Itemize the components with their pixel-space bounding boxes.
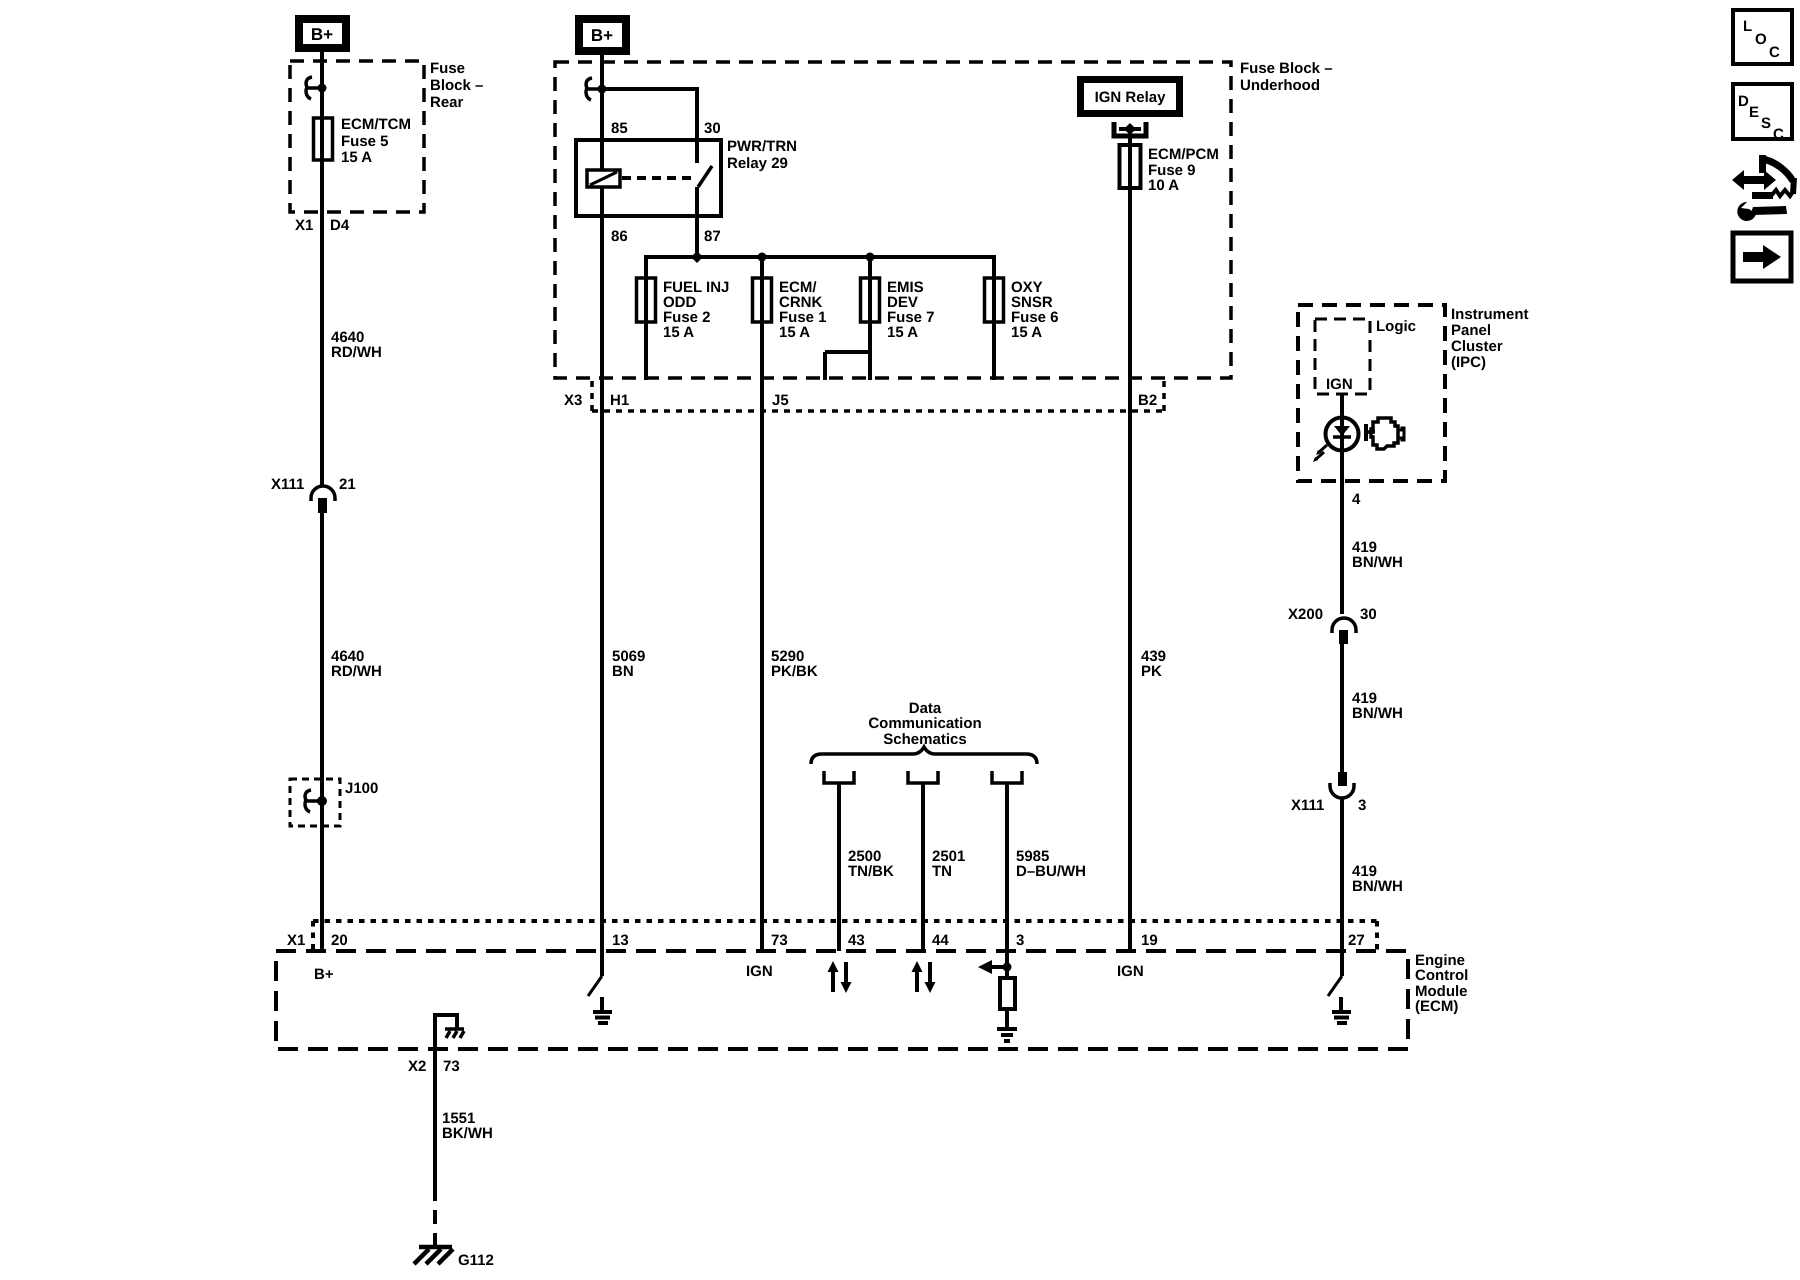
pin label 44	[932, 932, 949, 949]
connector X200 pin 30	[1288, 606, 1377, 644]
svg-text:J100: J100	[345, 780, 378, 797]
branch wire to fuse 2	[644, 255, 648, 278]
instrument panel cluster dashed box	[1298, 305, 1445, 481]
svg-text:X111: X111	[271, 476, 304, 493]
fuse F1 ECM/CRNK	[753, 257, 772, 322]
relay coil-contact dashed link	[622, 176, 692, 180]
svg-text:Block –: Block –	[430, 77, 483, 94]
svg-text:Logic: Logic	[1376, 318, 1416, 335]
connector label X2 73	[408, 1058, 460, 1075]
svg-text:C: C	[1769, 44, 1780, 61]
svg-text:G112: G112	[458, 1252, 494, 1269]
IGN relay output bracket	[1114, 122, 1146, 136]
svg-text:BN/WH: BN/WH	[1352, 705, 1403, 722]
ECM bidirectional arrows at pin 44	[912, 961, 936, 993]
wire relay pin 87 down to fuse bus	[695, 187, 699, 257]
ground G112	[414, 1247, 453, 1264]
engine control module dashed box	[276, 951, 1408, 1049]
fuse F2 FUEL INJ ODD	[637, 278, 656, 322]
off-page bracket pin 3	[992, 771, 1022, 783]
wire IGN relay to fuse 9	[1128, 129, 1132, 145]
ECM internal switch to ground at pin 27	[1328, 951, 1351, 1023]
svg-text:X1: X1	[287, 932, 305, 949]
engine icon	[1366, 418, 1404, 449]
wire label 5069 BN	[612, 648, 645, 680]
fuse F9 ECM/PCM	[1120, 145, 1141, 188]
fuse F7 EMIS DEV	[861, 257, 880, 322]
svg-text:85: 85	[611, 120, 628, 137]
svg-text:B2: B2	[1138, 392, 1157, 409]
svg-text:PK: PK	[1141, 663, 1162, 680]
label IGN at pin 19	[1117, 963, 1144, 980]
svg-text:L: L	[1743, 18, 1752, 35]
wire label 5985 D-BU/WH	[1016, 848, 1086, 880]
pin label 43	[848, 932, 865, 949]
svg-text:15 A: 15 A	[779, 324, 810, 341]
svg-text:Fuse 5: Fuse 5	[341, 133, 389, 150]
fuse bus horizontal wire	[646, 255, 994, 259]
relay switch contact	[698, 166, 712, 187]
relay pin 85 wire through coil	[600, 140, 604, 170]
wire 4640 RD/WH lower segment	[320, 513, 324, 951]
pin label 87	[704, 228, 721, 245]
indicator lamp MIL	[1313, 418, 1359, 463]
label Engine Control Module (ECM)	[1415, 952, 1468, 1015]
fuse F6 OXY SNSR	[985, 255, 1004, 322]
wire from junction to relay pin 30	[602, 87, 697, 163]
svg-text:BN: BN	[612, 663, 634, 680]
svg-text:ECM/PCM: ECM/PCM	[1148, 146, 1219, 163]
label Instrument Panel Cluster (IPC)	[1451, 306, 1529, 371]
svg-text:27: 27	[1348, 932, 1365, 949]
pin label 27	[1348, 932, 1365, 949]
pin label 85	[611, 120, 628, 137]
svg-text:D: D	[1738, 93, 1749, 110]
svg-text:Underhood: Underhood	[1240, 77, 1320, 94]
label J5	[772, 392, 789, 409]
wire fuse 6 down to X3 edge	[992, 322, 996, 380]
svg-text:IGN: IGN	[1117, 963, 1144, 980]
clip symbol in fuse block rear	[305, 77, 327, 99]
wire label 4640 RD/WH (lower)	[331, 648, 382, 680]
wire 2500 TN/BK	[837, 783, 841, 951]
svg-text:D–BU/WH: D–BU/WH	[1016, 863, 1086, 880]
wire label 419 BN/WH (2)	[1352, 690, 1403, 722]
svg-text:J5: J5	[772, 392, 789, 409]
svg-text:73: 73	[443, 1058, 460, 1075]
junction at pin 87 bus	[691, 251, 703, 263]
wire X111 to ECM pin 27	[1340, 798, 1344, 951]
label G112	[458, 1252, 494, 1269]
ECM internal switch to ground at pin 13	[588, 951, 612, 1023]
label IGN in logic box	[1326, 376, 1353, 393]
pin label 30	[704, 120, 721, 137]
label OXY SNSR Fuse 6 15 A	[1011, 279, 1059, 341]
svg-text:20: 20	[331, 932, 348, 949]
fuse 7 jog branch wire	[825, 352, 870, 380]
label ECM/TCM Fuse 5 15 A	[341, 116, 411, 166]
svg-text:X200: X200	[1288, 606, 1323, 623]
wire label 2501 TN	[932, 848, 965, 880]
svg-text:X1: X1	[295, 217, 313, 234]
fuse F5 ECM/TCM	[314, 118, 333, 160]
svg-text:S: S	[1761, 115, 1771, 132]
svg-text:15 A: 15 A	[663, 324, 694, 341]
svg-text:E: E	[1749, 104, 1759, 121]
svg-text:30: 30	[1360, 606, 1377, 623]
splice J100 clip symbol	[304, 790, 327, 812]
svg-text:H1: H1	[610, 392, 629, 409]
battery terminal B+ left	[295, 15, 350, 52]
label FUEL INJ ODD Fuse 2 15 A	[663, 279, 729, 341]
svg-text:19: 19	[1141, 932, 1158, 949]
wire label 1551 BK/WH	[442, 1110, 493, 1142]
wire fuse 2 to X3 edge	[644, 322, 648, 380]
svg-text:3: 3	[1358, 797, 1366, 814]
label X1	[287, 932, 305, 949]
label Logic	[1376, 318, 1416, 335]
wire lamp to IPC edge	[1340, 451, 1344, 614]
svg-text:B+: B+	[311, 25, 333, 44]
wire 439 PK fuse 9 down to ECM	[1128, 188, 1132, 951]
off-page bracket pin 43	[824, 771, 854, 783]
svg-text:X111: X111	[1291, 797, 1324, 814]
svg-text:Cluster: Cluster	[1451, 338, 1503, 355]
wire fuse 7 down to X3 edge	[868, 322, 872, 380]
relay coil	[587, 170, 620, 187]
pin label 73	[771, 932, 788, 949]
svg-text:10 A: 10 A	[1148, 177, 1179, 194]
svg-text:Communication: Communication	[868, 715, 981, 732]
wire label 419 BN/WH (3)	[1352, 863, 1403, 895]
svg-text:30: 30	[704, 120, 721, 137]
label B2	[1138, 392, 1157, 409]
svg-text:86: 86	[611, 228, 628, 245]
label ECM/CRNK Fuse 1 15 A	[779, 279, 827, 341]
label H1	[610, 392, 629, 409]
svg-text:15 A: 15 A	[887, 324, 918, 341]
svg-text:73: 73	[771, 932, 788, 949]
wire 5290 PK/BK fuse 1 down to ECM	[760, 322, 764, 951]
wire label 5290 PK/BK	[771, 648, 818, 680]
relay IGN Relay box	[1077, 76, 1183, 117]
pin label 19	[1141, 932, 1158, 949]
junction dot fuse 1 branch	[758, 253, 767, 262]
connector X111 pin 21	[271, 476, 356, 513]
svg-text:15 A: 15 A	[341, 149, 372, 166]
svg-text:B+: B+	[591, 26, 613, 45]
svg-text:Panel: Panel	[1451, 322, 1491, 339]
icon box LOC	[1733, 10, 1792, 64]
wire IGN to indicator	[1340, 394, 1344, 418]
pin label 13	[612, 932, 629, 949]
fuse block rear dashed box	[290, 61, 424, 212]
label Fuse Block - Rear	[430, 60, 483, 111]
brace for data communication	[811, 747, 1037, 764]
wire label 419 BN/WH (1)	[1352, 539, 1403, 571]
svg-text:RD/WH: RD/WH	[331, 344, 382, 361]
wire label 2500 TN/BK	[848, 848, 894, 880]
label B+ at pin 20	[314, 966, 334, 983]
wire from B+ middle into fuse block	[600, 55, 604, 140]
svg-text:IGN Relay: IGN Relay	[1095, 89, 1167, 106]
svg-text:RD/WH: RD/WH	[331, 663, 382, 680]
svg-text:BN/WH: BN/WH	[1352, 878, 1403, 895]
connector X1 dotted line	[313, 921, 1377, 951]
svg-text:PWR/TRN: PWR/TRN	[727, 138, 797, 155]
off-page bracket pin 44	[908, 771, 938, 783]
svg-text:(ECM): (ECM)	[1415, 998, 1458, 1015]
label ECM/PCM Fuse 9 10 A	[1148, 146, 1219, 194]
svg-text:(IPC): (IPC)	[1451, 354, 1486, 371]
fuse block underhood dashed box	[555, 62, 1231, 378]
svg-text:Rear: Rear	[430, 94, 464, 111]
wire 5069 BN relay pin 86 down to ECM	[600, 187, 604, 951]
connector label X1 D4	[295, 217, 350, 234]
svg-text:21: 21	[339, 476, 356, 493]
label Fuse Block - Underhood	[1240, 60, 1333, 94]
icon box arrow	[1733, 233, 1791, 281]
label PWR/TRN Relay 29	[727, 138, 797, 172]
junction dot fuse 7 branch	[866, 253, 875, 262]
logic dashed box	[1315, 319, 1370, 394]
wire 1551 BK/WH	[433, 1049, 437, 1187]
icon box DESC	[1733, 84, 1792, 143]
wire X200 to X111	[1340, 644, 1344, 772]
label IGN at pin 73	[746, 963, 773, 980]
svg-text:BK/WH: BK/WH	[442, 1125, 493, 1142]
svg-text:BN/WH: BN/WH	[1352, 554, 1403, 571]
svg-text:87: 87	[704, 228, 721, 245]
svg-text:IGN: IGN	[746, 963, 773, 980]
svg-text:D4: D4	[330, 217, 350, 234]
relay PWR/TRN Relay 29 box	[576, 140, 721, 216]
svg-text:TN: TN	[932, 863, 952, 880]
wire label 4640 RD/WH (upper)	[331, 329, 382, 361]
svg-text:X2: X2	[408, 1058, 426, 1075]
clip symbol in fuse block underhood	[585, 78, 607, 100]
wire from B+ left down to fuse block rear	[320, 52, 324, 118]
svg-text:13: 13	[612, 932, 629, 949]
svg-text:43: 43	[848, 932, 865, 949]
pin label 3	[1016, 932, 1024, 949]
wire 2501 TN	[921, 783, 925, 951]
label Data Communication Schematics	[868, 700, 981, 748]
svg-text:O: O	[1755, 31, 1767, 48]
connector X111 pin 3	[1291, 772, 1366, 814]
wire label 439 PK	[1141, 648, 1166, 680]
dashed wire to ground G112	[433, 1187, 437, 1246]
svg-text:Control: Control	[1415, 967, 1468, 984]
label J100	[345, 780, 378, 797]
svg-text:X3: X3	[564, 392, 582, 409]
svg-text:IGN: IGN	[1326, 376, 1353, 393]
svg-text:Fuse Block –: Fuse Block –	[1240, 60, 1333, 77]
svg-text:3: 3	[1016, 932, 1024, 949]
pin label 86	[611, 228, 628, 245]
svg-text:15 A: 15 A	[1011, 324, 1042, 341]
wire 4640 RD/WH upper segment	[320, 160, 324, 487]
svg-text:B+: B+	[314, 966, 334, 983]
splice J100 dashed box	[290, 779, 340, 826]
svg-text:TN/BK: TN/BK	[848, 863, 894, 880]
svg-text:Fuse: Fuse	[430, 60, 465, 77]
svg-text:Instrument: Instrument	[1451, 306, 1529, 323]
svg-text:4: 4	[1352, 491, 1361, 508]
pin label 20	[331, 932, 348, 949]
connector X3 dotted line	[592, 381, 1164, 411]
ECM pin 3 arrow and terminating resistor	[978, 960, 1017, 1041]
svg-text:ECM/TCM: ECM/TCM	[341, 116, 411, 133]
svg-text:PK/BK: PK/BK	[771, 663, 818, 680]
pin label 4	[1352, 491, 1361, 508]
icon schematic navigation	[1732, 155, 1794, 221]
wire 5985 D-BU/WH	[1005, 783, 1009, 967]
svg-text:C: C	[1773, 126, 1784, 143]
svg-text:Relay 29: Relay 29	[727, 155, 788, 172]
svg-text:44: 44	[932, 932, 949, 949]
label X3	[564, 392, 582, 409]
ECM bidirectional arrows at pin 43	[828, 961, 852, 993]
label EMIS DEV Fuse 7 15 A	[887, 279, 935, 341]
battery terminal B+ middle	[575, 15, 630, 55]
ECM internal ground at pin X2 73	[433, 1013, 464, 1049]
